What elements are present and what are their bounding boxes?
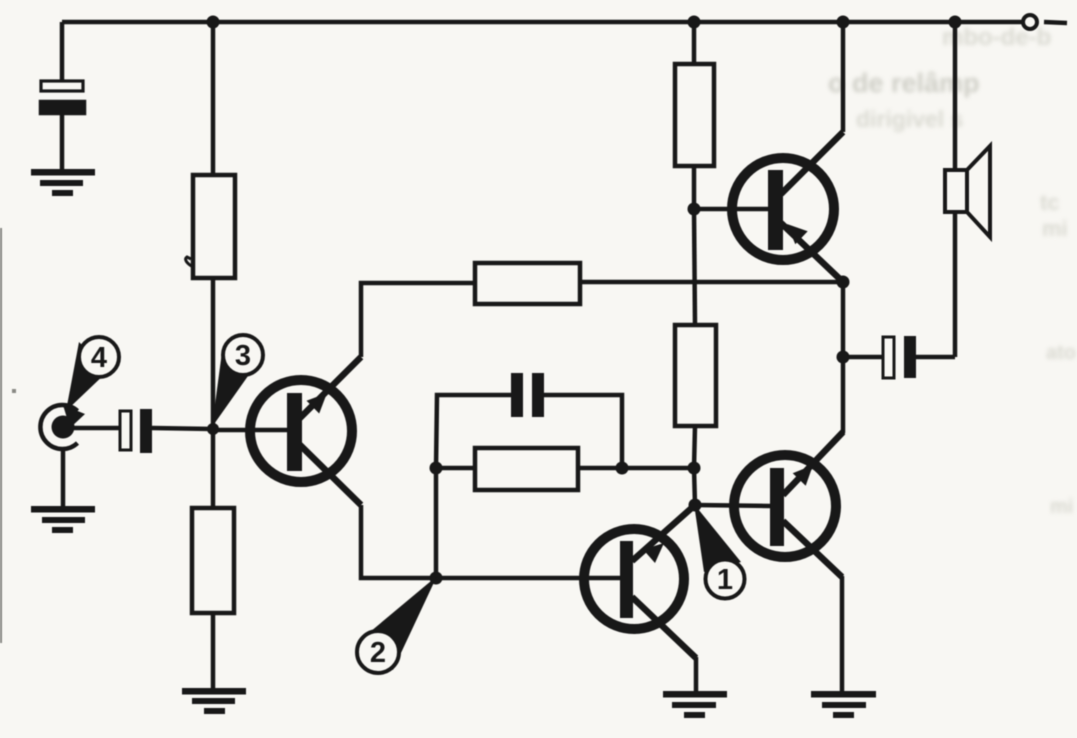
speaker SPK — [945, 146, 990, 237]
node dot RC left — [430, 462, 443, 475]
wire rail to R5 — [692, 22, 697, 64]
node dot output cap — [837, 351, 850, 364]
transistor Q3 — [732, 132, 843, 282]
wire dash after terminal — [1044, 22, 1067, 23]
terminal B+ output circle — [1023, 15, 1037, 29]
wire rail to R1 — [211, 22, 216, 175]
callout 3 — [212, 335, 263, 427]
wire up to C3 — [436, 395, 511, 468]
node dot rail/speaker — [949, 16, 962, 29]
transistor Q2 — [584, 505, 696, 658]
node dot rail/Q3 collector — [837, 16, 850, 29]
node 2 junction — [430, 572, 443, 585]
resistor R5 (top right) — [675, 64, 714, 166]
node dot rail/R1 — [207, 16, 220, 29]
wire node 3 to Q1 base — [213, 428, 288, 433]
wire Q3 collector to rail — [841, 22, 846, 132]
wire down to output cap node — [841, 282, 846, 357]
wire node 3 to R2 — [211, 430, 216, 508]
ground under R2 — [182, 688, 246, 714]
wire Q1 collector up to R3 — [361, 283, 475, 357]
wire node down to R6 — [694, 209, 695, 325]
resistor R1 (upper left bias) — [193, 175, 235, 278]
wire RC left to R4 — [436, 466, 475, 471]
wire J1 to coupling cap — [63, 426, 120, 431]
scan edge artifact left — [0, 228, 16, 643]
wire C2 to node 3 — [152, 428, 213, 429]
wire R6 to node dot — [694, 426, 695, 468]
wire node 2 up to parallel RC — [434, 468, 439, 578]
node 1 junction — [689, 499, 702, 512]
wire R5 to Q3 base node — [692, 166, 697, 209]
transistor Q4 — [734, 432, 843, 577]
wire C3 right side down — [544, 395, 622, 468]
wire R2 to ground — [211, 613, 216, 690]
wire Q4 emitter to ground — [840, 576, 845, 691]
node dot RC right — [616, 462, 629, 475]
wire R4 right to vertical R6 line — [578, 466, 694, 471]
resistor R2 (lower left bias) — [192, 508, 234, 613]
ground under Q4 — [811, 691, 876, 718]
svg-text:4: 4 — [91, 342, 107, 374]
callout 2 — [357, 576, 437, 673]
resistor R6 (middle right) — [675, 325, 716, 426]
capacitor C3 (bypass) — [511, 373, 544, 417]
svg-text:1: 1 — [717, 564, 733, 596]
wire left drop to filter cap — [60, 22, 65, 81]
transistor Q1 — [250, 357, 361, 505]
ground under J1 — [31, 506, 95, 533]
wire Q2 emitter to ground — [694, 657, 699, 691]
callout 1 — [694, 504, 745, 599]
input jack J1 — [40, 405, 77, 506]
resistor R3 (feedback) — [475, 263, 580, 304]
bleed-through text from reverse page — [942, 24, 1051, 52]
wire rail to speaker — [953, 22, 958, 170]
node dot rail/R5 — [688, 16, 701, 29]
wire node 2 to Q2 base — [436, 576, 620, 581]
ground under Q2 — [663, 691, 727, 718]
node 3 junction — [207, 423, 219, 435]
wire down to node 1 — [694, 468, 695, 505]
scan artifact curl at R1 — [186, 257, 193, 267]
wire node 1 to Q4 base — [695, 505, 771, 506]
ground under C1 — [31, 169, 95, 196]
wire Q1 emitter down to node 2 — [361, 505, 436, 578]
capacitor C1 (filter, top-left) — [41, 81, 84, 169]
capacitor C2 (input coupling) — [120, 409, 152, 453]
wire R1 to node 3 — [211, 278, 216, 430]
wire node to Q3 base — [694, 207, 769, 212]
node dot Q3 base — [688, 203, 701, 216]
node dot Q3 emitter / feedback — [837, 276, 850, 289]
wire down to Q4 collector — [784, 357, 843, 494]
resistor R4 (parallel with C3) — [475, 448, 578, 490]
wire R3 right to node at C4 junction — [580, 280, 843, 285]
capacitor C4 (output) — [843, 336, 955, 378]
wire B+ rail top — [62, 20, 1023, 25]
svg-text:2: 2 — [370, 637, 386, 669]
callout 4 — [63, 337, 119, 428]
node dot R6 bottom — [688, 462, 701, 475]
svg-text:3: 3 — [235, 340, 251, 372]
wire speaker to C4 — [953, 212, 958, 357]
